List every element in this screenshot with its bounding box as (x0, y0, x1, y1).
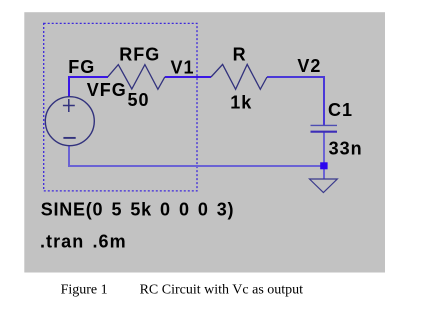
schematic canvas background (24, 12, 385, 272)
voltage source VFG label (87, 80, 127, 100)
wire (323, 132, 325, 179)
svg-text:V2: V2 (297, 56, 321, 76)
selection box (dashed) (44, 23, 197, 191)
svg-text:50: 50 (128, 90, 150, 110)
capacitor C1 (311, 125, 338, 131)
value 1k label (230, 93, 252, 113)
svg-text:.tran .6m: .tran .6m (40, 232, 127, 252)
svg-text:RFG: RFG (119, 45, 160, 65)
figure caption (61, 283, 304, 298)
voltage source VFG (45, 97, 94, 146)
svg-text:C1: C1 (328, 100, 353, 120)
node V1 label (171, 58, 195, 78)
value 33n label (329, 139, 363, 159)
ground (310, 179, 338, 193)
SINE source directive (41, 200, 235, 220)
wire (69, 146, 322, 166)
svg-text:VFG: VFG (87, 80, 127, 100)
svg-text:FG: FG (68, 57, 95, 77)
node V2 label (297, 56, 321, 76)
svg-text:V1: V1 (171, 58, 195, 78)
resistor R (211, 64, 267, 89)
capacitor C1 label (328, 100, 353, 120)
resistor RFG label (119, 45, 160, 65)
svg-text:33n: 33n (329, 139, 363, 159)
svg-text:1k: 1k (230, 93, 252, 113)
svg-text:Figure 1: Figure 1 (61, 283, 108, 298)
.tran directive (40, 232, 127, 252)
resistor RFG (108, 65, 165, 90)
wire (165, 76, 211, 78)
svg-text:R: R (233, 45, 247, 65)
resistor R label (233, 45, 247, 65)
svg-text:RC Circuit with Vc as output: RC Circuit with Vc as output (140, 283, 304, 298)
value 50 label (128, 90, 150, 110)
node FG label (68, 57, 95, 77)
wire (267, 77, 324, 125)
junction node V2/ground (320, 162, 327, 169)
svg-text:SINE(0 5 5k 0 0 0 3): SINE(0 5 5k 0 0 0 3) (41, 200, 235, 220)
wire (69, 77, 108, 97)
